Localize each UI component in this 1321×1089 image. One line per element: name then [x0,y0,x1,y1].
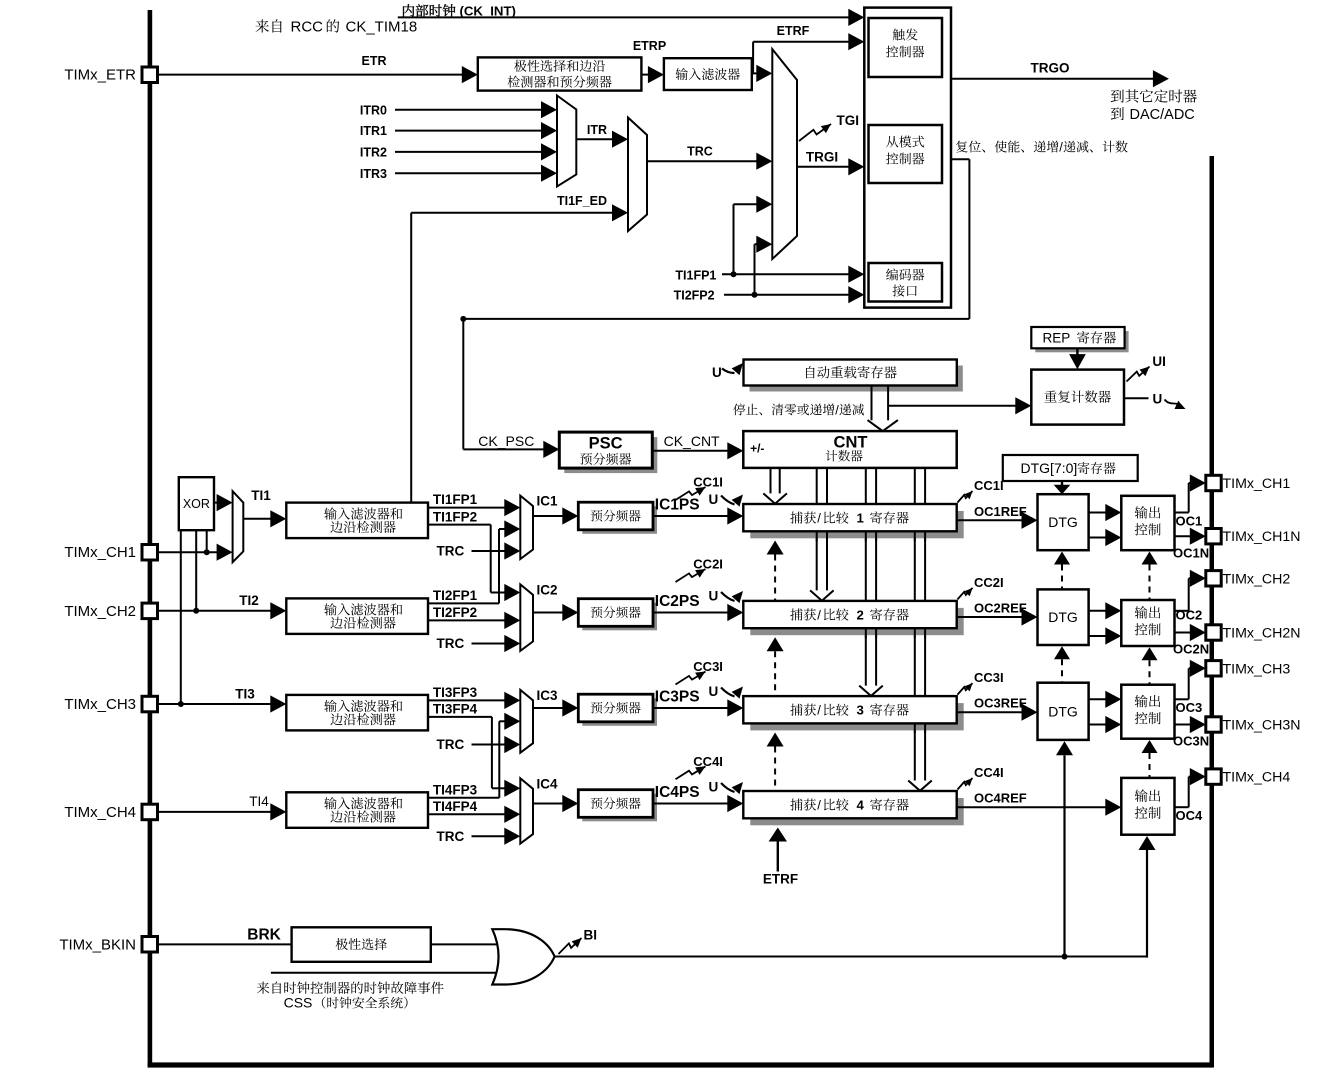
wire TI2FP2 to encoder [724,294,851,296]
wire BKIN [158,943,292,945]
label TGI with interrupt arrow [799,124,831,141]
mux TRC select [628,118,647,232]
box output control 2 [1121,600,1174,646]
svg-text:BI: BI [584,928,598,943]
wire slave mode feedback to PSC [951,158,969,160]
wire IC2 [533,612,564,614]
svg-text:TRC: TRC [437,636,465,651]
svg-text:TIMx_CH3: TIMx_CH3 [1223,661,1291,677]
svg-text:CSS: CSS [284,995,313,1011]
port TIMx_CH2N [1206,625,1221,640]
label to DAC/ADC [1111,107,1124,120]
wire OC1 to TIMx_CH1 [1175,512,1189,514]
dashed chain DTG boxes [1054,552,1070,565]
svg-text:IC3PS: IC3PS [655,689,700,706]
box output control 4 [1121,778,1174,835]
svg-text:TGI: TGI [837,113,860,128]
wire TRGO [951,78,1154,80]
svg-text:U: U [1153,392,1163,407]
wire OC2 to TIMx_CH2 [1175,610,1189,612]
wire ITR2 [395,151,543,153]
wire CSS clock failure event [271,972,505,974]
svg-text:CC2I: CC2I [974,575,1004,590]
svg-text:TI3FP3: TI3FP3 [433,685,478,700]
box DTG 1 [1038,494,1089,550]
svg-text:TRC: TRC [437,737,465,752]
label CK_INT internal clock [403,4,455,17]
svg-text:OC3REF: OC3REF [974,696,1027,711]
svg-text:ITR3: ITR3 [360,167,387,181]
wire ETRF into capture/compare 4 [769,828,787,842]
junction TI2FP2 [752,292,758,298]
wire ITR1 [395,130,543,132]
svg-text:RCC: RCC [291,19,324,36]
svg-text:OC2N: OC2N [1173,642,1209,657]
wire OC2N to TIMx_CH2N [1175,632,1193,634]
svg-text:TIMx_CH4: TIMx_CH4 [64,804,136,821]
svg-text:DAC/ADC: DAC/ADC [1130,107,1195,123]
box polarity selection (BRK) [292,927,431,962]
svg-text:ETRF: ETRF [777,24,810,38]
wire IC4PS [653,803,729,805]
svg-text:/: / [817,798,821,813]
mux TRGI trigger select [772,49,797,259]
svg-text:TI4: TI4 [249,794,269,809]
wire ITR0 [395,109,543,111]
box prescaler IC1 [582,506,657,534]
svg-text:CC1I: CC1I [974,478,1004,493]
gate OR break [492,929,554,984]
svg-text:OC2: OC2 [1176,608,1203,623]
svg-text:ITR: ITR [587,123,607,137]
svg-text:TIMx_CH3: TIMx_CH3 [64,696,136,713]
wire IC1 [533,515,564,517]
wire OC3 to TIMx_CH3 [1175,698,1189,700]
svg-text:CNT: CNT [834,433,868,451]
svg-text:CC3I: CC3I [974,670,1004,685]
box capture/compare 1 register [750,511,963,538]
svg-text:TRC: TRC [437,829,465,844]
wire ARR to repetition counter [888,405,1017,407]
box DTG 3 [1038,683,1089,740]
wire TI4FP3 up to IC3 mux [428,797,499,799]
svg-text:TIMx_CH2: TIMx_CH2 [64,603,136,620]
wire counter bus to capture/compare 4 [914,468,916,781]
wire U out of repetition counter [1124,397,1149,399]
chip boundary right spine [1210,156,1215,1067]
wire IC3PS [653,707,729,709]
svg-text:/: / [1059,140,1063,155]
box input filter and edge detector 2 [286,598,428,634]
wire TI2 [158,610,273,612]
mux IC1 select [520,496,533,559]
svg-text:TIMx_CH1: TIMx_CH1 [1223,476,1291,492]
wire ETR [158,74,464,76]
svg-text:ETRF: ETRF [763,872,798,887]
svg-text:TRGI: TRGI [806,150,838,165]
box polarity selection and edge detector and prescaler [478,57,642,90]
wire XOR tap CH1 [206,530,208,552]
junction BI to DTG3 [1062,954,1068,960]
svg-text:ETR: ETR [362,54,387,68]
wire OC2REF [957,616,1023,618]
svg-text:U: U [709,589,719,604]
svg-text:CC1I: CC1I [693,475,723,490]
svg-text:4: 4 [857,798,865,813]
wire IC2PS [653,612,729,614]
box prescaler IC4 [582,794,657,822]
label stop clear or up/down [733,403,834,415]
label to other timers [1111,89,1197,102]
wire TI1FP2 down to IC2 mux [428,524,491,526]
svg-text:XOR: XOR [183,497,210,511]
svg-text:OC1REF: OC1REF [974,504,1027,519]
box REP register [1035,331,1128,352]
mux IC3 select [520,690,533,753]
port TIMx_CH3N [1206,717,1221,732]
svg-text:ETRP: ETRP [633,39,666,53]
wire OC1N to TIMx_CH1N [1175,535,1193,537]
svg-text:ITR1: ITR1 [360,124,387,138]
svg-text:IC1: IC1 [537,494,559,509]
wires DTG1 to output control [1089,512,1107,514]
wire TRC row 4 [472,835,507,837]
wire TI3 [158,703,273,705]
svg-text:TI1FP2: TI1FP2 [433,509,477,524]
dashed chain output control boxes [1142,552,1158,565]
svg-text:TIMx_CH2: TIMx_CH2 [1223,571,1291,587]
wire IC4 [533,803,564,805]
wire TI3FP4 down to IC4 mux [428,716,492,718]
wire OC3N to TIMx_CH3N [1175,724,1193,726]
svg-text:U: U [712,365,722,380]
svg-text:TRC: TRC [437,544,465,559]
svg-text:ITR2: ITR2 [360,146,387,160]
svg-text:(CK_INT): (CK_INT) [460,4,516,19]
box capture/compare 2 register [750,608,963,635]
box encoder interface [869,263,943,302]
svg-text:3: 3 [857,703,864,718]
svg-text:TRGO: TRGO [1031,61,1070,76]
box output control 1 [1121,496,1174,550]
wire TI3FP3 [428,699,506,701]
svg-text:1: 1 [857,511,864,526]
svg-text:BRK: BRK [247,926,281,943]
svg-text:UI: UI [1152,354,1166,369]
box CNT counter [743,431,956,468]
wire TI1FP1 [428,507,506,509]
svg-text:TI2FP2: TI2FP2 [433,605,477,620]
box capture/compare 4 register [750,798,963,825]
wire OC4 to TIMx_CH4 [1175,806,1189,808]
box input filter and edge detector 4 [286,792,428,828]
svg-text:U: U [709,684,719,699]
box input filter and edge detector 3 [286,695,428,731]
svg-text:2: 2 [857,608,864,623]
wire ETRF to trigger mux [752,72,758,74]
wire BRK to OR gate [431,943,505,945]
box input filter and edge detector 1 [286,503,428,538]
wire CK_INT [398,16,850,18]
svg-text:TIMx_ETR: TIMx_ETR [64,67,136,84]
arrow REP to repetition counter [1076,348,1078,355]
wire counter bus to capture/compare 3 [865,468,867,686]
svg-text:TI3FP4: TI3FP4 [433,702,478,717]
svg-text:DTG: DTG [1048,703,1078,719]
svg-text:CC4I: CC4I [693,754,723,769]
wire ITR [576,138,613,140]
wire TI1 [243,518,272,520]
svg-text:CK_CNT: CK_CNT [664,433,720,449]
box DTG 2 [1038,589,1089,645]
box DTG[7:0] register [1003,455,1138,481]
svg-text:IC2PS: IC2PS [655,593,700,610]
svg-text:OC3: OC3 [1176,700,1203,715]
port TIMx_CH2 [1206,571,1221,586]
svg-text:/: / [817,511,821,526]
svg-text:DTG: DTG [1048,609,1078,625]
svg-text:TI1: TI1 [251,488,271,503]
box capture/compare 3 register [750,703,963,730]
wire ETRP [641,74,650,76]
wire break to DTG3 [1056,741,1073,755]
label from RCC CK_TIM18 [256,19,282,32]
mux IC2 select [520,584,533,651]
box PSC prescaler [564,437,657,473]
svg-text:CK_PSC: CK_PSC [478,433,534,449]
wire TI1F_ED [411,212,613,214]
svg-text:TI4FP3: TI4FP3 [433,782,478,797]
box auto-reload register [750,366,963,392]
svg-text:OC4REF: OC4REF [974,791,1027,806]
svg-text:TIMx_CH2N: TIMx_CH2N [1223,626,1301,642]
svg-text:TIMx_CH3N: TIMx_CH3N [1223,718,1301,734]
junction feedback corner [460,316,466,322]
svg-text:IC4: IC4 [537,776,559,791]
wire TI1FP1 to encoder [722,273,851,275]
svg-text:TI1FP1: TI1FP1 [433,492,478,507]
wire IC1PS [653,515,729,517]
mux IC4 select [520,778,533,843]
dashed update chain below capture/compare registers [767,541,784,555]
wire TI2FP2 up to trigger mux [754,244,756,295]
svg-text:PSC: PSC [589,434,623,452]
wire TI4FP4 [428,813,506,815]
svg-text:OC4: OC4 [1176,808,1204,823]
wire ARR to CNT double line [871,386,873,421]
svg-text:ITR0: ITR0 [360,103,387,117]
svg-text:TRC: TRC [687,145,713,159]
chip boundary left spine [148,10,153,1067]
wire counter bus to capture/compare 1 [770,468,772,494]
svg-text:DTG[7:0]: DTG[7:0] [1021,460,1078,476]
wire IC3 [533,707,564,709]
svg-text:CC3I: CC3I [693,659,723,674]
svg-text:OC1N: OC1N [1173,545,1209,560]
box trigger controller [869,18,943,77]
port TIMx_CH4 [1206,769,1221,784]
svg-text:REP: REP [1043,331,1071,346]
wire CK_PSC [463,448,545,450]
svg-text:TIMx_CH1N: TIMx_CH1N [1223,529,1301,545]
svg-text:TI2FP2: TI2FP2 [674,289,715,303]
box trigger/slave-mode/encoder controller outer [864,8,951,308]
wire TI4 [158,811,273,813]
wire OC1REF [957,519,1023,521]
arrow DTG register to DTG1 [1061,481,1063,486]
mux ITR select [557,96,576,187]
mux TI1 select (XOR/CH1) [233,491,244,562]
svg-text:TI2FP1: TI2FP1 [433,588,478,603]
svg-text:/: / [817,703,821,718]
svg-text:IC4PS: IC4PS [655,784,700,801]
box input filter (ETR) [664,58,752,90]
svg-text:/: / [835,402,839,417]
wire TRC [647,160,758,162]
box XOR [179,477,214,530]
svg-text:U: U [709,780,719,795]
svg-text:OC3N: OC3N [1173,734,1209,749]
label BI with interrupt arrow [559,938,582,954]
box prescaler IC3 [582,698,657,726]
junction TI1FP1 [731,271,737,277]
svg-text:IC3: IC3 [537,688,559,703]
svg-text:DTG: DTG [1048,514,1078,530]
wire TRC row 3 [472,744,507,746]
box repetition counter [1031,370,1124,425]
port TIMx_CH1N [1206,529,1221,544]
wire CH1 into TI1 mux [158,551,219,553]
wire OC4REF [957,806,1107,808]
svg-text:OC2REF: OC2REF [974,601,1027,616]
wire break to output control 4 [1139,836,1156,850]
chip boundary bottom border [148,1062,1214,1067]
svg-text:TIMx_CH1: TIMx_CH1 [64,544,136,561]
svg-text:TIMx_CH4: TIMx_CH4 [1223,770,1291,786]
wire XOR output [214,502,219,504]
svg-text:/: / [817,608,821,623]
svg-text:CC2I: CC2I [693,557,723,572]
wires DTG2 to output control [1089,610,1107,612]
box slave mode controller [869,125,943,183]
svg-text:+/-: +/- [750,441,764,455]
svg-text:TI1FP1: TI1FP1 [675,268,716,282]
wire counter bus to capture/compare 2 [816,468,818,591]
port TIMx_CH3 [1206,661,1221,676]
port TIMx_CH1 [1206,475,1221,490]
wire ETRF branch up [752,42,754,74]
wire counter bus over shadows [816,531,818,541]
svg-text:TI2: TI2 [239,593,259,608]
wire BI output [555,956,1147,958]
wires DTG3 to output control [1089,698,1107,700]
wire TRGI [797,166,850,168]
label clock failure event from clock controller [257,981,444,993]
wire TI2FP1 up to IC1 mux [428,602,499,604]
svg-text:OC1: OC1 [1176,513,1203,528]
wire TRC row 2 [472,643,507,645]
svg-text:IC2: IC2 [537,582,558,597]
svg-text:CK_TIM18: CK_TIM18 [346,19,418,36]
wire TRC row 1 [472,550,507,552]
wire TI2FP2 [428,619,506,621]
svg-text:CC4I: CC4I [974,765,1004,780]
box prescaler IC2 [582,603,657,631]
wire ITR3 [395,172,543,174]
wire CK_CNT [652,450,729,452]
label reset enable up/down count [956,140,1059,152]
wire XOR tap CH2 [195,530,197,611]
box output control 3 [1121,685,1174,739]
wire XOR tap CH3 [180,530,182,704]
label UI with interrupt arrow [1127,367,1150,382]
svg-text:TI1F_ED: TI1F_ED [557,194,607,208]
wire TI1FP1 up to trigger mux [733,204,735,274]
svg-text:U: U [709,492,719,507]
wire OC3REF [957,711,1023,713]
svg-text:TI4FP4: TI4FP4 [433,799,478,814]
svg-text:TIMx_BKIN: TIMx_BKIN [59,936,136,953]
svg-text:TI3: TI3 [235,686,255,701]
